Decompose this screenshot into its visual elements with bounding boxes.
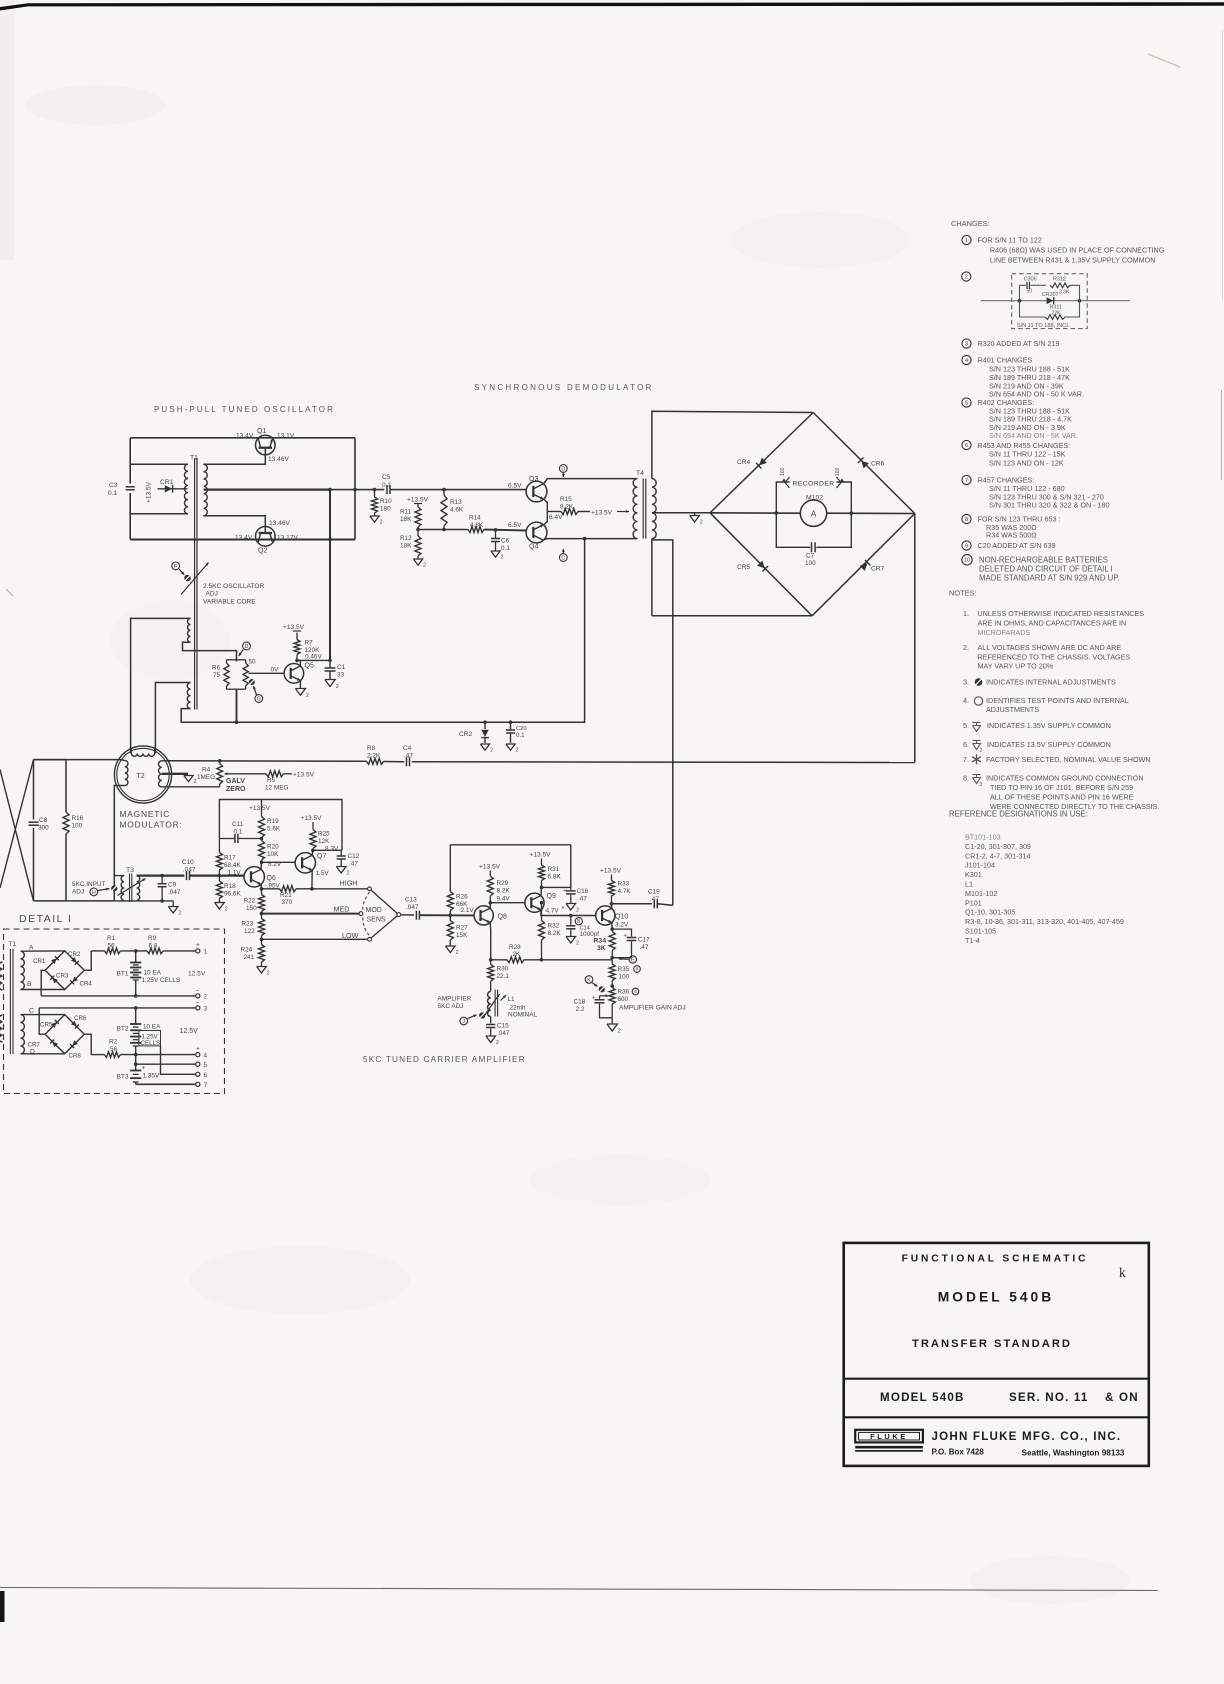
svg-text:6.8K: 6.8K (548, 874, 562, 881)
svg-text:FLUKE: FLUKE (870, 1432, 908, 1441)
resistor R1 (105, 948, 121, 954)
resistor R2 (105, 1052, 121, 1058)
capacitor C4 (406, 757, 408, 766)
capacitor C10 (186, 871, 188, 880)
svg-text:R10: R10 (380, 498, 392, 505)
svg-text:8: 8 (636, 967, 639, 972)
svg-text:R18: R18 (224, 883, 236, 890)
wire LOW (262, 938, 368, 940)
page bottom-left black mark (0, 1591, 5, 1622)
svg-text:R401 CHANGES: R401 CHANGES (978, 356, 1033, 365)
potentiometer R4 galv zero (219, 761, 221, 764)
page top border bar (0, 2, 1224, 10)
svg-text:MOD: MOD (366, 907, 382, 914)
diode CR2 (484, 722, 486, 729)
wire T3 bottom rail (114, 900, 173, 902)
svg-text:+13.5V: +13.5V (249, 805, 271, 812)
svg-text:2.: 2. (963, 643, 969, 652)
wire Q8 collector (489, 903, 491, 909)
svg-text:K301: K301 (965, 870, 982, 879)
svg-text:3: 3 (204, 1006, 208, 1013)
svg-text:& ON: & ON (1105, 1391, 1139, 1404)
transformer T2 top winding (132, 754, 155, 757)
svg-text:0.1: 0.1 (516, 732, 525, 739)
svg-text:R24: R24 (241, 947, 253, 954)
svg-text:1: 1 (204, 949, 208, 956)
svg-text:Q1: Q1 (257, 428, 266, 435)
svg-text:2: 2 (576, 940, 579, 946)
svg-text:CR4: CR4 (80, 981, 93, 988)
test point D oscillator divider (243, 642, 251, 650)
svg-text:+: + (196, 942, 200, 949)
svg-text:C13: C13 (405, 897, 417, 904)
svg-text:H: H (92, 890, 96, 896)
wire winding4 top to T2 branch (155, 683, 190, 748)
svg-text:ADJ: ADJ (206, 591, 218, 598)
svg-text:C19: C19 (648, 889, 660, 896)
svg-text:T3: T3 (126, 867, 134, 874)
svg-text:HIGH: HIGH (340, 879, 358, 888)
wire B to bridge1 bottom (21, 989, 65, 991)
svg-text:D: D (561, 466, 565, 472)
wire bridge1 right to R1 rail (84, 951, 91, 970)
terminal 4 (196, 1053, 200, 1057)
svg-text:2: 2 (204, 994, 208, 1001)
svg-text:22mh: 22mh (510, 1005, 526, 1012)
svg-text:CR8: CR8 (69, 1053, 82, 1060)
svg-text:96.6K: 96.6K (224, 891, 241, 898)
resistor R8 (367, 758, 384, 764)
wire input bottom (34, 900, 115, 902)
title block divider 2 (844, 1416, 1149, 1418)
wire T2 left winding top (34, 759, 125, 762)
wire collector to C19 (612, 903, 652, 905)
svg-text:13.1V: 13.1V (277, 432, 295, 439)
svg-text:2: 2 (516, 748, 519, 754)
wire Q9 emitter to Q10 base (541, 910, 596, 916)
change inset diode CR307 (1047, 297, 1054, 304)
capacitor C7 (811, 542, 813, 552)
resistor R10 (374, 490, 376, 497)
svg-text:S/N 654 AND ON - 5K VAR.: S/N 654 AND ON - 5K VAR. (989, 431, 1078, 440)
svg-text:MAGNETIC: MAGNETIC (120, 809, 171, 819)
svg-text:75: 75 (213, 672, 221, 679)
wire network bottom to rail (236, 689, 238, 722)
svg-text:G: G (257, 696, 261, 702)
svg-text:13.17V: 13.17V (277, 534, 299, 541)
svg-text:100: 100 (805, 560, 816, 567)
svg-text:9.4V: 9.4V (497, 896, 511, 903)
svg-text:+: + (563, 888, 567, 895)
svg-text:600: 600 (618, 996, 629, 1003)
diode CR8 detail (72, 1040, 78, 1046)
svg-text:CELLS: CELLS (141, 1040, 161, 1047)
transistor Q7 (295, 853, 315, 873)
diode CR5 detail (51, 1022, 57, 1028)
adjust dot 5KC input (111, 885, 117, 891)
svg-text:22K: 22K (1052, 311, 1062, 317)
diode CR2 detail (71, 957, 77, 963)
test point K gain (585, 976, 593, 984)
wire R31 bottom junction (541, 881, 543, 888)
wire Q5 emitter to ground (299, 681, 301, 689)
wire C to bridge2 top (21, 1014, 65, 1016)
page right edge artifact (1221, 390, 1223, 480)
svg-text:6.8: 6.8 (149, 943, 158, 950)
svg-text:10K: 10K (267, 851, 279, 858)
wire Q6 base to Q7 (262, 861, 296, 863)
svg-text:.047: .047 (406, 904, 419, 911)
wire Q2 base lead (203, 516, 265, 533)
terminal 3 (196, 1006, 200, 1010)
wire tap to C5 (330, 489, 384, 491)
svg-text:4.6K: 4.6K (450, 507, 464, 514)
svg-text:R30: R30 (497, 966, 509, 973)
inductor L1 slug arrow (483, 994, 500, 1018)
wire Q10 emitter (611, 923, 613, 930)
wire Q4 collector to T4 (544, 539, 638, 540)
wire R5 to +13.5V (284, 773, 293, 775)
svg-text:8.2K: 8.2K (497, 888, 511, 895)
wire input left vertical (33, 760, 35, 820)
svg-text:IDENTIFIES TEST POINTS AND INT: IDENTIFIES TEST POINTS AND INTERNAL (986, 696, 1129, 705)
svg-text:.047: .047 (497, 1030, 510, 1037)
svg-text:2.2: 2.2 (576, 1006, 585, 1013)
svg-text:6: 6 (204, 1072, 208, 1079)
svg-text:2: 2 (267, 970, 270, 976)
wire T2 top winding leads (130, 748, 132, 754)
svg-text:5KC TUNED CARRIER AMPLIFIER: 5KC TUNED CARRIER AMPLIFIER (363, 1055, 526, 1064)
svg-text:2: 2 (380, 520, 383, 526)
svg-text:300: 300 (38, 825, 49, 832)
resistor R27 (447, 921, 453, 941)
wire crossing X input 2 (0, 760, 34, 888)
svg-text:2: 2 (225, 906, 228, 912)
svg-text:2.2K: 2.2K (367, 753, 381, 760)
ground at R18 (215, 903, 225, 909)
svg-text:2: 2 (423, 563, 426, 569)
svg-text:0.46V: 0.46V (305, 654, 322, 661)
svg-text:+13.5V: +13.5V (293, 772, 315, 779)
svg-text:S/N 11 TO 188, INCL.: S/N 11 TO 188, INCL. (1017, 323, 1072, 329)
svg-text:T2: T2 (137, 773, 145, 780)
capacitor C11 (218, 837, 220, 839)
svg-text:CR5: CR5 (737, 564, 751, 571)
svg-text:ADJUSTMENTS: ADJUSTMENTS (986, 705, 1039, 714)
svg-text:T1: T1 (190, 455, 198, 462)
svg-text:5KC INPUT: 5KC INPUT (72, 881, 105, 888)
change note 9 (962, 541, 971, 550)
diode CR5 (757, 561, 765, 569)
svg-text:SENS: SENS (367, 917, 386, 924)
svg-text:ARE IN OHMS, AND CAPACITANCES: ARE IN OHMS, AND CAPACITANCES ARE IN (978, 618, 1127, 627)
svg-text:.047: .047 (183, 867, 196, 874)
svg-text:8: 8 (965, 517, 968, 523)
transformer T1 detail core (9, 949, 11, 1054)
transformer T2 right winding (159, 761, 162, 787)
svg-text:0.1: 0.1 (382, 482, 391, 489)
svg-text:BT2: BT2 (117, 1026, 129, 1033)
ground at C14 (566, 937, 576, 943)
svg-text:.47: .47 (640, 944, 649, 951)
svg-text:−: − (196, 988, 200, 995)
wire Q1 base lead (203, 448, 265, 465)
svg-text:2: 2 (490, 748, 493, 754)
svg-text:4.7K: 4.7K (618, 888, 632, 895)
terminal 5 (196, 1062, 200, 1066)
change note 3 (962, 339, 971, 348)
wire T4 secondary bottom jog (651, 539, 653, 616)
ground at R10 (370, 516, 379, 522)
diode CR3 detail (52, 978, 58, 984)
svg-text:R7: R7 (305, 640, 314, 647)
svg-text:ALL VOLTAGES SHOWN ARE DC AND: ALL VOLTAGES SHOWN ARE DC AND ARE (978, 643, 1122, 652)
svg-text:Q4: Q4 (529, 544, 538, 551)
svg-text:R33: R33 (618, 881, 630, 888)
svg-text:R320 ADDED AT S/N 219: R320 ADDED AT S/N 219 (978, 339, 1060, 348)
svg-text:R36: R36 (618, 989, 630, 996)
wire oscillator right vertical (354, 438, 356, 540)
potentiometer R7 oscillator level (237, 659, 246, 661)
resistor R28 (507, 957, 524, 963)
transistor Q8 (474, 906, 493, 925)
svg-text:MODEL 540B: MODEL 540B (938, 1290, 1054, 1305)
wire C5 to Q3 base (391, 489, 527, 491)
bridge1 edges (45, 951, 84, 990)
svg-text:NOMINAL: NOMINAL (508, 1012, 538, 1019)
svg-text:L1: L1 (965, 880, 973, 889)
wire T2 right winding top (162, 760, 165, 762)
svg-text:PUSH-PULL TUNED OSCILLATOR: PUSH-PULL TUNED OSCILLATOR (154, 405, 335, 414)
svg-text:Q9: Q9 (547, 893, 556, 900)
wire T2 left winding bottom (114, 786, 125, 901)
svg-text:R23: R23 (242, 921, 254, 928)
svg-text:1.35V: 1.35V (143, 1073, 160, 1080)
svg-text:NOTES:: NOTES: (949, 589, 977, 598)
svg-text:15K: 15K (456, 932, 468, 939)
svg-text:10 EA: 10 EA (144, 970, 162, 977)
svg-text:2: 2 (347, 870, 350, 876)
capacitor C18 (600, 995, 609, 997)
wire winding4 bottom to common rail (181, 539, 584, 723)
change note 2 (962, 272, 971, 281)
svg-text:18K: 18K (400, 543, 412, 550)
svg-text:ALL OF THESE POINTS AND PIN 16: ALL OF THESE POINTS AND PIN 16 WERE (990, 792, 1134, 801)
svg-text:1: 1 (965, 238, 968, 244)
wiper arrow R4 (225, 773, 241, 775)
svg-text:100: 100 (619, 974, 630, 981)
wire MED (262, 913, 360, 915)
svg-text:Q8: Q8 (498, 914, 507, 921)
capacitor C16 (570, 887, 572, 889)
diode CR6 (861, 461, 869, 469)
wire HIGH (312, 888, 368, 890)
svg-text:L1: L1 (508, 996, 516, 1003)
svg-text:2: 2 (496, 1040, 499, 1046)
bridge edge bottom-left (710, 513, 812, 616)
ground at C12 (336, 867, 346, 873)
svg-text:13.4V: 13.4V (235, 534, 253, 541)
svg-text:6.: 6. (963, 740, 969, 749)
svg-text:2: 2 (179, 910, 182, 916)
svg-text:CR3: CR3 (56, 973, 69, 980)
ground at C6 (491, 551, 500, 557)
paper mottling (25, 85, 165, 125)
svg-text:C9: C9 (168, 882, 177, 889)
wire T4 secondary center to bridge left (652, 512, 710, 514)
svg-text:A: A (811, 510, 817, 519)
wire terminal 2 rail (41, 995, 196, 997)
wire T1 primary bottom to bus (130, 513, 188, 515)
svg-text:5: 5 (965, 401, 968, 407)
svg-text:+13.5V: +13.5V (600, 868, 622, 875)
svg-text:R4: R4 (202, 767, 211, 774)
svg-text:SER. NO. 11: SER. NO. 11 (1009, 1391, 1089, 1404)
change inset resistor R312 (1050, 283, 1070, 288)
svg-text:3: 3 (965, 342, 968, 348)
svg-text:4.8K: 4.8K (470, 522, 484, 529)
svg-text:12 MEG: 12 MEG (265, 785, 288, 792)
svg-text:13.46V: 13.46V (269, 520, 291, 527)
detail I dashed box (4, 929, 225, 1094)
svg-text:INDICATES 13.5V SUPPLY COMMON: INDICATES 13.5V SUPPLY COMMON (987, 740, 1111, 749)
capacitor C9 (161, 876, 163, 884)
wire bridge2 right to R2 (84, 1034, 91, 1054)
logo FLUKE (855, 1430, 923, 1443)
svg-text:S/N 301 THRU 320 & 322 & ON -: S/N 301 THRU 320 & 322 & ON - 180 (989, 501, 1110, 510)
resistor R26 (449, 845, 451, 892)
wire Q6 emitter (260, 884, 263, 889)
svg-text:50: 50 (249, 659, 257, 666)
svg-text:C7: C7 (806, 553, 815, 560)
svg-text:C15: C15 (497, 1023, 509, 1030)
test point J (460, 1017, 468, 1025)
resistor R25 (310, 830, 316, 849)
ground at T3 rail (172, 901, 174, 907)
wire T4 secondary top to bridge top (652, 411, 813, 478)
wire crossing X input 1 (0, 770, 34, 901)
svg-text:BT3: BT3 (117, 1074, 129, 1081)
recorder connector chevrons (785, 477, 790, 488)
capacitor C15 (490, 1017, 492, 1024)
bridge edge bottom-right (812, 514, 915, 616)
resistor R29 (487, 876, 493, 896)
svg-text:FOR S/N 11 TO 122: FOR S/N 11 TO 122 (978, 236, 1042, 245)
ground at Q5 (295, 689, 305, 696)
svg-text:C1: C1 (337, 664, 346, 671)
svg-text:NON-RECHARGEABLE BATTERIES: NON-RECHARGEABLE BATTERIES (979, 555, 1108, 564)
svg-text:122: 122 (244, 928, 255, 935)
wire R14 to Q4 base (484, 530, 526, 531)
svg-text:R34 WAS 500Ω: R34 WAS 500Ω (986, 531, 1037, 540)
svg-text:C306: C306 (1024, 276, 1037, 282)
svg-text:18K: 18K (400, 516, 412, 523)
resistor R32 (541, 903, 543, 921)
svg-text:22.1: 22.1 (497, 973, 510, 980)
resistor R35 (609, 964, 615, 981)
diode CR7 detail (52, 1042, 58, 1048)
svg-text:6.4V: 6.4V (549, 514, 563, 521)
wire bridge horizontal left (710, 512, 800, 514)
transistor Q10 (596, 906, 615, 925)
wire R7 junction to C1 (297, 659, 330, 661)
rail R28 output (491, 959, 507, 961)
svg-text:.47: .47 (404, 753, 413, 760)
recorder box (776, 482, 810, 547)
wire C10 to Q6 base (190, 874, 244, 876)
svg-text:CR307: CR307 (1042, 292, 1059, 298)
wire bridge horizontal right (827, 512, 915, 514)
bridge edge top-right (813, 413, 915, 514)
svg-text:CR6: CR6 (74, 1015, 87, 1022)
svg-text:CR7: CR7 (28, 1042, 41, 1049)
svg-text:k: k (1119, 1265, 1126, 1280)
wire R15 to +13.5V (578, 511, 590, 513)
svg-text:5.: 5. (963, 721, 969, 730)
svg-text:CHANGES:: CHANGES: (951, 219, 990, 228)
svg-text:1.5V: 1.5V (316, 870, 330, 877)
svg-text:P101: P101 (965, 898, 982, 907)
svg-text:1.1V: 1.1V (228, 870, 242, 877)
ground at amplifier output (611, 1018, 613, 1024)
wire Q7 emitter (311, 870, 313, 889)
svg-text:Q10: Q10 (615, 914, 628, 921)
svg-text:Q5: Q5 (305, 663, 314, 670)
svg-text:R16: R16 (72, 815, 84, 822)
svg-text:R406 (68Ω) WAS USED IN PLACE O: R406 (68Ω) WAS USED IN PLACE OF CONNECTI… (990, 246, 1165, 255)
diode CR4 detail (72, 977, 78, 983)
svg-text:8.2K: 8.2K (548, 930, 562, 937)
capacitor C17 (612, 929, 631, 936)
wire D to bridge2 bottom (21, 1053, 65, 1055)
resistor R11 (417, 504, 419, 508)
svg-text:R13: R13 (450, 499, 462, 506)
transistor Q6 (244, 867, 264, 887)
resistor R12 (417, 530, 419, 537)
svg-text:C10: C10 (182, 859, 194, 866)
svg-text:INDICATES COMMON GROUND CONNEC: INDICATES COMMON GROUND CONNECTION (986, 774, 1144, 783)
resistor R21 (262, 888, 280, 890)
svg-text:C: C (561, 555, 565, 561)
wiper R7 to Q5 (249, 672, 285, 674)
svg-text:.047: .047 (168, 889, 181, 896)
svg-text:5: 5 (204, 1062, 208, 1069)
svg-text:R26: R26 (456, 894, 468, 901)
svg-text:CR1-2, 4-7, 301-314: CR1-2, 4-7, 301-314 (965, 851, 1031, 860)
svg-text:R9: R9 (148, 935, 157, 942)
transistor Q1 (255, 435, 275, 455)
svg-text:C16: C16 (577, 888, 589, 895)
diode CR1 (158, 488, 188, 490)
svg-text:C12: C12 (348, 853, 360, 860)
wire R1 rail (91, 950, 104, 952)
transformer T4 core (642, 479, 644, 539)
transformer T3 right winding (137, 876, 140, 901)
wire T1 primary top to bus (130, 463, 188, 465)
svg-text:CR5: CR5 (40, 1022, 53, 1029)
svg-text:2: 2 (618, 1029, 621, 1035)
svg-text:LINE BETWEEN R431 & 1.35V SUPP: LINE BETWEEN R431 & 1.35V SUPPLY COMMON (990, 256, 1156, 265)
ground at CR2 (480, 744, 489, 750)
svg-text:R29: R29 (497, 880, 509, 887)
wire Q3 collector to T4 (544, 479, 638, 485)
wire T3 secondary top thick (137, 874, 185, 876)
svg-text:6: 6 (965, 443, 968, 449)
diode CR6 detail (71, 1021, 77, 1027)
resistor R31 (539, 865, 545, 881)
svg-text:Q7: Q7 (317, 853, 326, 860)
svg-text:8.: 8. (963, 774, 969, 783)
